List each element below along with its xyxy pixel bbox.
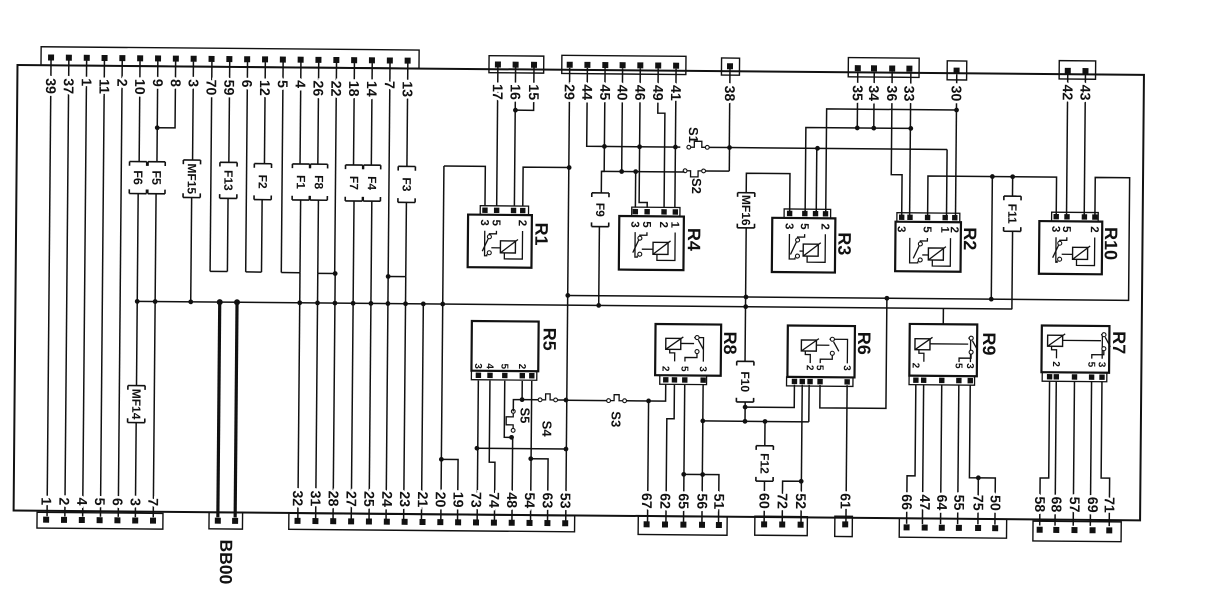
junction pin73 link	[475, 446, 480, 451]
wire pin4 into fuse F1	[299, 63, 302, 164]
switch S2	[683, 169, 705, 177]
svg-text:2: 2	[1050, 361, 1061, 367]
svg-text:S5: S5	[517, 407, 532, 423]
junction pin21 on bus1	[421, 301, 426, 306]
junction BB00 right on bus1	[234, 299, 240, 305]
svg-text:R10: R10	[1101, 227, 1121, 260]
junction F6 output on bus1	[135, 299, 140, 304]
fuse MF14	[128, 386, 146, 423]
connector strip CN-E (pins 35 34 36 33)	[848, 58, 919, 78]
outer enclosure border	[14, 65, 1144, 520]
junction R1pin2 feed on pin29 column	[567, 165, 572, 170]
svg-text:35: 35	[849, 85, 865, 101]
svg-text:6: 6	[238, 80, 254, 88]
svg-text:2: 2	[516, 220, 528, 227]
wire pin35 column	[856, 71, 858, 128]
svg-text:58: 58	[1031, 496, 1047, 512]
wire S2 right to pin38 column	[706, 170, 730, 172]
svg-text:R1: R1	[531, 223, 551, 246]
svg-text:40: 40	[613, 85, 629, 101]
wire R9 pin5 to bottom pin55	[958, 385, 959, 524]
wire R6 second pin to pin52 column	[801, 385, 802, 523]
pin number labels CN-H	[0, 0, 2, 1]
wire H2 into S2	[683, 171, 685, 172]
junction R3 unlabeled pin riser on H1	[815, 146, 820, 151]
relay R9 coil and contact	[915, 336, 978, 363]
svg-text:3: 3	[1049, 226, 1061, 233]
fuse MF16	[737, 193, 755, 228]
svg-text:2: 2	[113, 79, 129, 87]
wire pin3 into fuse MF15	[192, 62, 195, 160]
wire R3 pin2 loop to pin30 column	[826, 109, 957, 215]
svg-text:73: 73	[467, 492, 483, 508]
svg-text:5: 5	[1085, 362, 1096, 368]
junction pin19 elbow	[439, 457, 444, 462]
pin number labels CN-J	[0, 0, 2, 1]
junction R4pin3 drop on H2	[633, 169, 638, 174]
relay R9	[909, 324, 999, 385]
svg-text:F1: F1	[294, 175, 308, 189]
wire line up to R6 pin2	[808, 385, 810, 422]
svg-text:S1: S1	[686, 127, 701, 143]
pin number labels CN-K	[0, 0, 2, 1]
svg-text:21: 21	[414, 491, 430, 507]
junction pin56 on link line	[700, 472, 705, 477]
junction pin41 on H1	[673, 145, 678, 150]
svg-text:F2: F2	[256, 175, 270, 189]
svg-text:2: 2	[657, 221, 669, 228]
wire pin38 column	[728, 69, 731, 147]
svg-text:F11: F11	[1005, 204, 1019, 224]
fuse F11	[1004, 196, 1022, 231]
svg-text:F10: F10	[738, 371, 752, 392]
junction BB00 left on bus1	[217, 299, 223, 305]
wire F12 output to bottom pin60	[763, 481, 765, 522]
fuse F6	[129, 162, 146, 194]
svg-text:2: 2	[55, 497, 71, 505]
wire pin12 into fuse F2	[263, 62, 266, 163]
link pin73 node to pin29 column	[477, 447, 566, 450]
connector strip CN-A (21 pins top left)	[41, 47, 419, 69]
svg-text:R8: R8	[720, 331, 740, 354]
connector strip CN-H (bottom left, pins 1 2 4 5 6 3 7)	[37, 512, 163, 529]
svg-text:8: 8	[167, 79, 183, 87]
switch S4	[538, 394, 557, 402]
pin number label 30	[0, 0, 2, 1]
svg-text:2: 2	[910, 363, 921, 369]
svg-text:62: 62	[656, 493, 672, 509]
svg-text:5: 5	[498, 363, 509, 369]
svg-text:S3: S3	[608, 411, 623, 427]
junction pin29 column at pin73 link	[564, 447, 569, 452]
svg-text:F12: F12	[757, 453, 771, 474]
junction pin22 on bus1	[333, 301, 338, 306]
svg-text:R2: R2	[960, 227, 980, 250]
svg-text:60: 60	[755, 493, 771, 509]
svg-text:18: 18	[345, 81, 361, 97]
svg-text:32: 32	[289, 490, 305, 506]
junction R1pin3 column on bus1	[440, 302, 445, 307]
svg-text:3: 3	[964, 363, 975, 369]
wire H2 drop to R4 pin3	[634, 172, 636, 208]
wire pin46 column from H1 jog to R4 pin5	[639, 68, 648, 207]
junction pin63 elbow on pin54 column	[528, 456, 533, 461]
connector strip CN-D (pin 38)	[721, 58, 739, 75]
svg-text:63: 63	[539, 493, 555, 509]
wire bus1 tap to bottom pin21	[421, 304, 423, 520]
wire F12 top feed	[764, 421, 766, 445]
junction F12 top	[763, 419, 768, 424]
junction MF16 column on bus2	[744, 295, 749, 300]
svg-text:26: 26	[309, 80, 325, 96]
junction pin29 column at bus2	[565, 293, 570, 298]
junction F1 tap on bus1	[297, 300, 302, 305]
junction F8 tap on bus1	[315, 301, 320, 306]
line S3 from pin29 column	[566, 399, 607, 401]
wire pin18 into fuse F7	[353, 63, 356, 165]
wire pin39 to bottom pin1	[47, 60, 51, 516]
relay R8	[655, 324, 740, 385]
wire R7 middle pin to bottom pin57	[1073, 381, 1074, 525]
line H2 from pin45 corner to switch S2	[601, 170, 683, 173]
svg-text:9: 9	[149, 79, 165, 87]
svg-text:2: 2	[516, 364, 527, 370]
relay R2	[894, 213, 980, 272]
svg-text:4: 4	[292, 80, 308, 88]
pin number labels CN-M	[0, 0, 2, 1]
junction F3 on bus1	[403, 301, 408, 306]
connector strip CN-N (pins 58 68 57 69 71)	[1033, 521, 1121, 542]
wire bottom pin19 elbow	[441, 459, 458, 520]
line to switch S4	[522, 399, 538, 401]
wire R6 pin3 to bottom pin61	[846, 385, 847, 523]
svg-text:47: 47	[916, 494, 932, 510]
pin number labels CN-C	[0, 0, 2, 1]
junction pin65 on link line	[681, 472, 686, 477]
relay R3 contact and coil	[789, 234, 825, 262]
svg-text:31: 31	[307, 490, 323, 506]
svg-text:3: 3	[472, 363, 483, 369]
svg-text:22: 22	[327, 81, 343, 97]
svg-text:36: 36	[883, 85, 899, 101]
svg-text:5: 5	[798, 223, 810, 230]
wire R1 pin3 / bus1 / bottom pin20 column	[441, 166, 444, 520]
wire R9 second pin to bottom pin47	[922, 385, 923, 524]
junction pin35 on Y127	[855, 126, 860, 131]
svg-text:10: 10	[131, 79, 147, 95]
svg-text:50: 50	[987, 495, 1003, 511]
connector BB00 (battery feed)	[209, 512, 243, 529]
wire S3 to R8 pin2	[627, 384, 666, 401]
svg-text:F6: F6	[131, 170, 145, 185]
junction R6 feed on F10 column	[743, 405, 748, 410]
junction R5pin2 on S4 line	[520, 397, 525, 402]
relay R7	[1041, 325, 1129, 381]
wire pin29 long column (to bus2, S4 node, pin73 node, bottom pin53)	[566, 68, 570, 521]
wire bottom pin72 elbow	[782, 481, 801, 523]
svg-text:BB00: BB00	[216, 539, 236, 584]
line F10/F12 feed	[703, 420, 809, 423]
wire pin17 to R1 pin5	[497, 67, 498, 206]
svg-text:29: 29	[561, 84, 577, 100]
relay R2 contact and coil	[910, 238, 951, 266]
wire R2 pin5 riser to F11 line	[928, 176, 1057, 218]
relay R3	[772, 209, 855, 273]
junction pin72 elbow on pin52 column	[799, 479, 804, 484]
junction S5/pin48 node	[509, 435, 514, 440]
svg-text:17: 17	[489, 84, 505, 100]
svg-text:R9: R9	[979, 332, 999, 355]
wire pin8 elbow joining pin9 column	[157, 61, 175, 128]
svg-text:F4: F4	[365, 176, 379, 190]
wire pin14 into fuse F4	[370, 63, 373, 165]
wire R5 pin5 elbow to S5 node	[504, 381, 512, 438]
relay R10	[1039, 212, 1121, 274]
svg-text:3: 3	[185, 79, 201, 87]
wire pin15 elbow joining pin16 column	[515, 67, 534, 110]
wire S4 to pin29 column	[558, 399, 566, 401]
svg-text:28: 28	[325, 491, 341, 507]
wire R3 pin5 feed from line Y127	[805, 128, 911, 215]
wire F11 output to bus1 right end	[1011, 231, 1014, 309]
battery feed BB00 heavy wires	[218, 302, 220, 517]
svg-text:3: 3	[895, 226, 907, 233]
wire bus1 stub to R9 box top	[942, 308, 944, 324]
pin number labels CN-G	[0, 0, 2, 1]
junction F7 on bus1	[351, 301, 356, 306]
fuse F7	[345, 165, 363, 201]
svg-text:72: 72	[774, 493, 790, 509]
junction riser to bus2 on F11 line	[990, 174, 995, 179]
svg-text:R3: R3	[834, 232, 854, 255]
wire R7 pin5 to bottom pin69	[1090, 382, 1091, 526]
svg-text:57: 57	[1066, 497, 1082, 513]
wire F1 output U + tap to bus1 and bottom pin32	[299, 200, 302, 273]
svg-text:MF15: MF15	[185, 163, 199, 194]
svg-text:F7: F7	[347, 176, 361, 190]
junction pin34 on Y127	[871, 126, 876, 131]
svg-text:R4: R4	[684, 228, 704, 251]
wire pin13 into fuse F3	[406, 63, 409, 166]
wire pin45 column through H1 down to F9 corner	[601, 68, 605, 193]
wire S5 node down to bottom pin48	[511, 437, 514, 520]
svg-text:2: 2	[948, 226, 960, 233]
connector strip CN-J (pins 67 62 65 56 51)	[638, 516, 727, 535]
junction MF15 output on bus1	[188, 299, 193, 304]
wire F9 output to bus1	[598, 227, 601, 306]
svg-text:7: 7	[144, 498, 160, 506]
junction pin45 on H1	[602, 144, 607, 149]
junction pin46 on H1	[637, 144, 642, 149]
wire F7 output to bus1 and bottom pin27	[351, 201, 354, 519]
wire pin2 to bottom pin6	[118, 61, 122, 517]
wire pin37 to bottom pin2	[65, 60, 69, 516]
wire pin59 into fuse F13	[228, 62, 231, 162]
svg-text:MF16: MF16	[739, 195, 753, 226]
wire R9 pin2 elbow to bottom pin66	[907, 385, 916, 524]
fuse F2	[254, 164, 272, 200]
wire R6 leftmost pin corner to F10 column	[745, 384, 794, 407]
wire MF15 output to bus1	[190, 198, 193, 302]
junction R6 feed riser on bus2	[884, 296, 889, 301]
wire R7 pin3 jog to bottom pin71	[1101, 382, 1111, 526]
wire pin41 column through H1 to R4 pin1	[675, 69, 676, 208]
svg-text:5: 5	[921, 226, 933, 233]
relay R4	[619, 207, 704, 270]
pin number label 38	[0, 0, 2, 1]
junction R2pin5 line riser on bus2	[989, 297, 994, 302]
junction pin29 column at S4 line	[564, 398, 569, 403]
connector strip CN-F (pin 30)	[947, 61, 967, 80]
junction pin38/S1/S2 node	[727, 145, 732, 150]
junction F3 elbow on pin7 column	[386, 274, 391, 279]
svg-text:46: 46	[631, 85, 647, 101]
svg-text:27: 27	[342, 491, 358, 507]
wire pin44 corner into line H1	[587, 68, 681, 147]
wire pin49 jog to R4 pin2	[657, 69, 665, 208]
svg-text:F8: F8	[312, 175, 326, 189]
svg-text:66: 66	[898, 494, 914, 510]
wire MF16 top loop to R3 pin3	[746, 173, 790, 213]
svg-text:13: 13	[398, 81, 414, 97]
svg-text:51: 51	[710, 494, 726, 510]
wire R6 pin5 feed from bus2 riser	[820, 298, 887, 409]
wire pin36 jog to R2 pin3	[891, 72, 903, 217]
wire pin7 column to bus1 and bottom pin24	[386, 63, 390, 519]
svg-text:53: 53	[557, 493, 573, 509]
svg-text:S2: S2	[689, 178, 704, 194]
wire R7 pin2 to bottom pin68	[1055, 381, 1056, 525]
svg-text:75: 75	[969, 495, 985, 511]
svg-text:F3: F3	[400, 177, 414, 191]
svg-text:48: 48	[503, 492, 519, 508]
svg-text:11: 11	[95, 79, 111, 94]
svg-text:43: 43	[1076, 85, 1092, 101]
pin number labels CN-I	[0, 0, 2, 1]
relay R10 contact and coil	[1053, 237, 1095, 265]
svg-text:64: 64	[933, 494, 949, 510]
wire MF16 output to bus2/bus1/F10	[745, 228, 746, 361]
bus2 rail to R10 pin2 loop	[568, 173, 1130, 300]
fuse F13	[220, 162, 238, 198]
wire pin26 into fuse F8	[317, 63, 320, 164]
svg-text:56: 56	[693, 493, 709, 509]
svg-text:2: 2	[659, 366, 670, 372]
svg-text:3: 3	[127, 498, 143, 506]
wire pin70 U-turn leg	[210, 62, 212, 272]
junction pin75 on R9pin3 elbow	[976, 475, 981, 480]
wire R8 pin3 to bottom pin56	[702, 385, 703, 522]
wire R5 pin4 jog to bottom pin74	[489, 381, 496, 521]
svg-text:33: 33	[900, 86, 916, 102]
svg-text:20: 20	[432, 492, 448, 508]
svg-text:74: 74	[485, 492, 501, 508]
wire F6 output through MF14 to bottom pin3	[136, 194, 138, 386]
junction F11 top on line	[1010, 174, 1015, 179]
wire S5 top corner to R5 pin2 line	[513, 400, 521, 412]
wire pin38 column down to S2	[728, 148, 730, 172]
switch S5 (vertical)	[506, 409, 515, 432]
svg-text:6: 6	[109, 498, 125, 506]
svg-text:41: 41	[667, 85, 683, 101]
svg-text:1: 1	[668, 222, 680, 229]
wire pin16 to R1 unlabeled pin	[514, 67, 515, 206]
svg-text:68: 68	[1048, 496, 1064, 512]
svg-text:R6: R6	[854, 332, 874, 355]
svg-text:38: 38	[721, 85, 737, 101]
connector strip CN-K (pins 60 72 52)	[755, 516, 808, 535]
junction pin33 on Y127	[908, 126, 913, 131]
pin number labels CN-A	[0, 0, 2, 1]
svg-text:3: 3	[697, 366, 708, 372]
wire F2 output U-turn to pin6	[260, 200, 263, 272]
wire pin40 column to line H2	[621, 68, 624, 171]
wire bottom pin63 elbow	[530, 459, 548, 521]
fuse F10	[736, 361, 754, 402]
wire R1 pin3 feed from left riser	[444, 166, 486, 206]
fuse F8	[310, 164, 328, 200]
svg-text:2: 2	[818, 223, 830, 230]
relay R7 coil and contact	[1047, 332, 1110, 359]
wire F5 output to bottom pin7	[153, 194, 156, 517]
wire R5 unlabeled pin to bottom pin54	[531, 381, 532, 520]
connector strip CN-M (pins 66 47 64 55 75 50)	[899, 518, 1006, 538]
svg-text:2: 2	[1088, 226, 1100, 233]
fuse F1	[292, 164, 310, 200]
svg-text:1: 1	[78, 78, 94, 86]
connector strip CN-L (pin 61)	[835, 516, 853, 536]
connector strip CN-I (bottom middle 16 pins)	[289, 513, 575, 531]
svg-text:5: 5	[814, 365, 825, 371]
pin number labels CN-N	[0, 0, 2, 1]
svg-text:14: 14	[363, 81, 379, 97]
svg-text:4: 4	[484, 363, 495, 369]
fuse F5	[148, 162, 165, 194]
svg-text:5: 5	[91, 498, 107, 506]
svg-text:34: 34	[865, 85, 881, 101]
pin number labels CN-B	[0, 0, 2, 1]
wire R9 pin3 elbow to bottom pin50	[969, 385, 996, 524]
junction pin15/pin16	[513, 108, 518, 113]
svg-text:12: 12	[256, 80, 272, 96]
wire pin43 to R10 unlabeled pin	[1084, 74, 1085, 217]
junction F5 output on bus1	[153, 299, 158, 304]
relay R6 coil and contact	[801, 337, 847, 363]
svg-text:61: 61	[837, 493, 853, 509]
svg-text:7: 7	[381, 81, 397, 89]
wire pin22 long column to bus1 and bottom pin28	[335, 63, 337, 274]
junction F8/pin22	[333, 271, 338, 276]
svg-text:65: 65	[675, 493, 691, 509]
wire pin33 column to R2 unlabeled pin	[910, 72, 911, 217]
wire pin6 U-turn leg	[246, 62, 248, 272]
wire F8 output elbow to pin22 column and down to bus1	[317, 200, 320, 273]
wire R5 pin2 down to S4 line	[521, 381, 523, 400]
wire pin34 column	[873, 72, 875, 129]
wire pin42 to R10 pin5	[1067, 74, 1068, 217]
fuse F9	[592, 193, 609, 227]
connector strip CN-G (pins 42 43)	[1059, 61, 1096, 80]
svg-text:16: 16	[506, 84, 522, 100]
svg-text:MF14: MF14	[129, 389, 143, 420]
wire R3 unlabeled pin riser	[815, 148, 818, 213]
wire bottom pin75	[977, 478, 979, 525]
svg-text:F9: F9	[593, 203, 607, 217]
wire pin10 into fuse F6	[138, 61, 141, 161]
fuse F4	[363, 165, 381, 201]
relay R1	[468, 206, 552, 268]
wire pin1 to bottom pin4	[83, 61, 87, 517]
